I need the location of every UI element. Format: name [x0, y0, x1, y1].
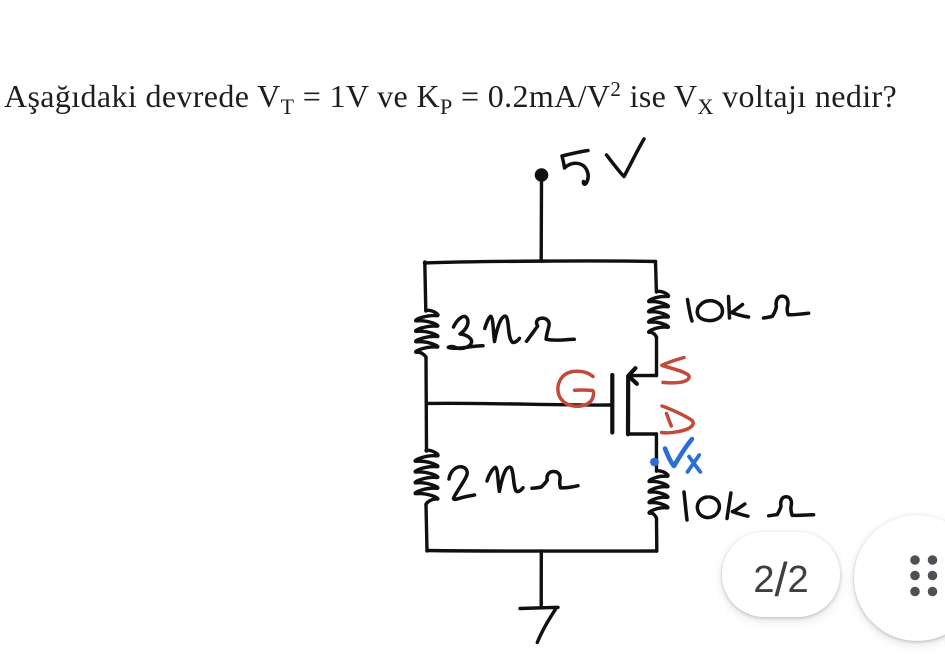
label 10k lower: omega — [769, 497, 814, 516]
six-dot grid icon — [910, 555, 937, 596]
label Vx: letter V — [665, 439, 692, 466]
label 10k upper: letter k — [729, 297, 749, 319]
wire: bottom rail — [427, 549, 657, 553]
label G (gate) — [558, 371, 594, 406]
resistor R1 3M ohm — [416, 310, 438, 357]
transistor M1 source lead — [631, 374, 657, 378]
label 5V: letter V — [607, 139, 645, 177]
wire: left branch lower — [426, 505, 427, 552]
resistor R4 10k lower — [649, 471, 668, 519]
label 10k upper: digit 0 — [697, 301, 722, 321]
transistor M1 source arrow — [628, 368, 637, 384]
question text — [4, 78, 897, 115]
wire: left branch middle — [424, 358, 428, 452]
label 5V: digit 5 — [562, 151, 588, 185]
wire: top rail — [425, 261, 656, 263]
wire: right branch lower — [655, 519, 659, 552]
label 10k lower: letter k — [727, 493, 748, 519]
wire: ground stem — [540, 551, 543, 607]
label 10k upper: digit 1 — [688, 300, 693, 322]
label 3M ohm: digit 3 with tail — [448, 316, 483, 348]
ground — [520, 607, 558, 642]
wire: 5V stem to top rail — [540, 181, 544, 261]
label S (source) — [662, 358, 689, 383]
label Vx: letter x — [688, 455, 701, 472]
label 2M ohm: omega — [532, 471, 578, 488]
wire: drain down through Vx node — [655, 434, 658, 471]
resistor R2 2M ohm — [415, 450, 438, 504]
wire: right branch upper — [654, 262, 658, 293]
transistor M1 drain lead — [628, 432, 656, 435]
label 10k lower: digit 0 — [697, 497, 719, 518]
label 2M ohm: letter M — [487, 467, 523, 491]
drag handle circle button — [854, 515, 945, 641]
label 3M ohm: omega — [527, 318, 575, 341]
wire: gate rail — [427, 403, 611, 405]
label 3M ohm: letter M — [485, 316, 520, 342]
transistor M1 gate bar — [610, 375, 614, 433]
resistor R3 10k upper — [649, 291, 669, 337]
page indicator pill 2/2 — [722, 532, 840, 617]
label D (drain) — [662, 406, 694, 433]
label 10k upper: omega — [764, 296, 809, 318]
label 10k lower: digit 1 — [684, 492, 687, 520]
wire: left branch upper — [425, 262, 426, 311]
node: 5V supply dot — [535, 168, 549, 182]
node Vx dot — [650, 458, 659, 467]
transistor M1 channel bar — [626, 377, 630, 435]
label 2M ohm: digit 2 — [449, 467, 475, 500]
wire: right branch to source corner — [655, 338, 658, 376]
